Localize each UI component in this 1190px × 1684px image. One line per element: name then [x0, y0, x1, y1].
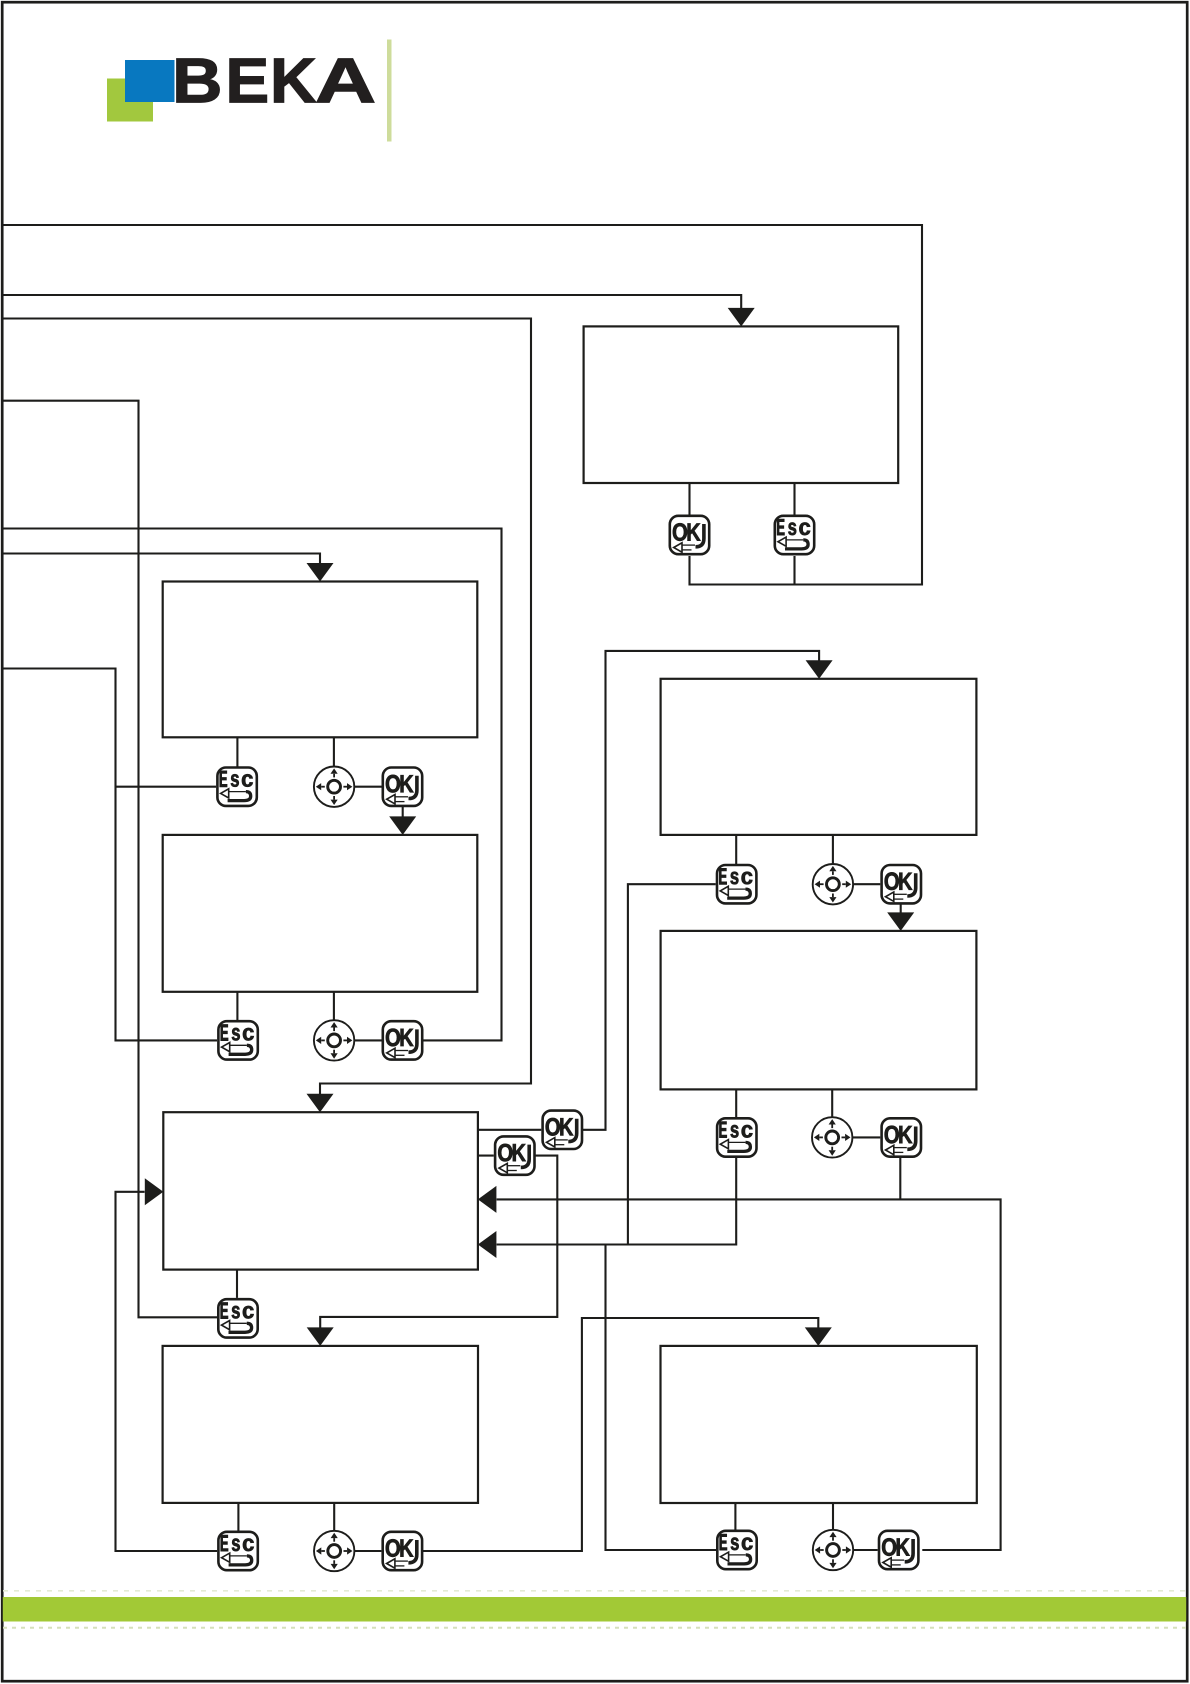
menu box L1	[163, 582, 478, 738]
nav pad under box BL	[314, 1531, 354, 1571]
wire: central box C bottom to ESC	[236, 1270, 238, 1298]
arrowhead down into box BL	[307, 1327, 334, 1346]
arrowhead right into box C	[145, 1178, 164, 1205]
ESC button under box L2	[218, 1021, 257, 1059]
wire: ESC of box BR up to ESC-return line	[606, 1245, 717, 1551]
arrowhead down into box L1	[307, 563, 334, 582]
wire: box T bottom to OK button	[688, 483, 690, 515]
nav pad under box R1	[813, 864, 853, 904]
wire: from left edge down to ESC of central box C	[3, 401, 217, 1318]
ESC button under box R1	[717, 865, 756, 903]
OK button under box L1	[383, 768, 422, 806]
OK button under box BL	[383, 1532, 422, 1570]
BEKA logo wordmark	[177, 59, 374, 102]
arrowhead down into box T	[728, 308, 755, 327]
menu box T (top-right)	[584, 326, 899, 483]
nav pad under box L2	[314, 1020, 354, 1060]
wire: OK of R1 down into box R2	[900, 904, 902, 913]
wire: box T bottom to ESC button	[793, 483, 795, 515]
wire: top loop from left edge to top-right OK/ESC pair	[3, 225, 922, 585]
nav pad under box R2	[812, 1117, 852, 1157]
menu box L2	[163, 835, 478, 992]
wire: box BL bottom to ESC	[237, 1503, 239, 1531]
wire: from left edge into top of menu box T	[3, 295, 741, 309]
wire: ESC of R1 left and down to ESC-return line	[628, 884, 716, 1244]
menu box R1	[661, 679, 977, 835]
BEKA logo blue square	[125, 60, 175, 102]
wire: from left edge down to ESC of box L1 and ESC of box L2	[3, 669, 217, 1041]
wire: OK of R2 down to OK-return line	[899, 1158, 901, 1200]
wire: nav pad BR to OK	[853, 1549, 878, 1551]
wire: box L1 bottom to nav pad	[333, 737, 335, 766]
wire: nav pad BL to OK	[354, 1550, 381, 1552]
wire: box BR bottom to ESC	[734, 1503, 736, 1530]
wire: box L2 bottom to ESC	[236, 992, 238, 1020]
wire: branch to ESC of box L1	[116, 786, 217, 788]
BEKA logo green square	[107, 79, 153, 122]
ESC button under box C	[218, 1299, 257, 1337]
arrowhead down into box R1	[806, 660, 833, 679]
wire: box C right to OK2	[478, 1129, 541, 1131]
ESC button under box R2	[717, 1118, 756, 1156]
wire: nav pad L2 to OK	[354, 1039, 381, 1041]
wire: box R2 bottom to ESC	[735, 1089, 737, 1117]
wire: box BR bottom to nav pad	[832, 1503, 834, 1530]
wire: from left edge down right side into top of central box C	[3, 319, 531, 1095]
nav pad under box L1	[314, 767, 354, 807]
arrowhead left into box C lower	[478, 1231, 497, 1258]
logo light green vertical bar	[387, 40, 392, 142]
wire: box R2 bottom to nav pad	[831, 1089, 833, 1117]
OK button under box T	[670, 516, 709, 554]
OK button 2 right of box C	[543, 1111, 582, 1149]
wire: box L1 bottom to ESC	[236, 737, 238, 767]
OK button under box L2	[383, 1021, 422, 1059]
faint dashed line below footer bar	[3, 1627, 1186, 1629]
menu box C (central)	[163, 1112, 478, 1269]
arrowhead down into box BR	[805, 1327, 832, 1346]
wire: box BL bottom to nav pad	[333, 1503, 335, 1531]
faint dashed line above footer bar	[3, 1590, 1186, 1592]
wire: top-right ESC to loop bottom	[793, 556, 795, 585]
wire: box L2 bottom to nav pad	[333, 992, 335, 1021]
ESC button under box BR	[717, 1531, 756, 1569]
arrowhead left into box C upper	[478, 1186, 497, 1213]
ESC button under box T	[775, 516, 814, 554]
wire: OK1 down and left into top of box BL	[320, 1156, 557, 1328]
wire: ESC of box BL up into left side of central box C	[116, 1192, 218, 1551]
nav pad under box BR	[813, 1530, 853, 1570]
ESC button under box L1	[217, 768, 256, 806]
wire: ESC-return line into right side of box C, fed by ESC R1, ESC R2, ESC BR	[497, 1158, 737, 1245]
wire: box R1 bottom to ESC	[735, 835, 737, 864]
OK button 1 right of box C	[495, 1136, 534, 1174]
arrowhead down into box R2	[887, 912, 914, 931]
menu box BL (bottom-left)	[163, 1346, 478, 1503]
OK button under box R1	[882, 865, 921, 903]
OK button under box BR	[879, 1531, 918, 1569]
wire: box C right to OK1	[478, 1155, 494, 1157]
arrowhead down into box C	[307, 1094, 334, 1113]
wire: OK2 up into top of box R1	[582, 651, 819, 1130]
wire: nav pad R1 to OK	[853, 883, 880, 885]
wire: from left edge into top of box L1	[3, 554, 320, 564]
wire: OK of box BL up into top of box BR	[422, 1318, 818, 1551]
wire: box R1 bottom to nav pad	[832, 835, 834, 864]
arrowhead down into box L2	[389, 816, 416, 835]
wire: from left edge down to OK of box L2	[3, 529, 502, 1041]
footer green bar	[3, 1597, 1186, 1622]
wire: nav pad R2 to OK	[852, 1136, 880, 1138]
wire: nav pad L1 to OK	[354, 786, 381, 788]
wire: OK-return line into right side of box C, fed by OK R2 and OK BR	[497, 1199, 1001, 1550]
menu box R2	[661, 931, 977, 1090]
OK button under box R2	[882, 1118, 921, 1156]
wire: OK of L1 down into box L2	[402, 807, 404, 817]
menu box BR (bottom-right)	[661, 1346, 977, 1503]
ESC button under box BL	[218, 1532, 257, 1570]
